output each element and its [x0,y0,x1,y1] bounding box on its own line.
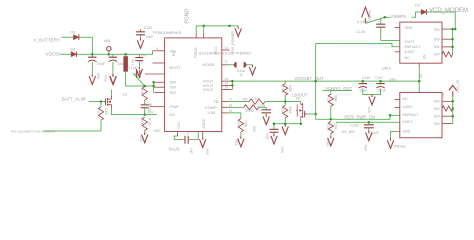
label D4 [71,47,76,51]
junction V_BATTERY joins rail [91,53,94,56]
wire C146 top lead [362,81,364,84]
pin ILIMIT stub U$9 [395,107,400,109]
svg-text:100k: 100k [140,118,144,126]
junction top gnd rail b [228,25,231,28]
resistor R105 [283,84,288,96]
svg-text:SW: SW [434,122,440,126]
svg-text:D4: D4 [71,47,76,51]
wire R127 top lead [330,91,332,95]
net label SOLDERED PERNO [199,51,251,56]
diode D6 [72,34,81,40]
label EN [148,111,153,115]
pin name BOOT inside [170,65,182,70]
svg-text:T8: T8 [295,96,299,100]
junction T8 source [300,122,303,125]
transistor T9 [104,96,112,109]
wire C147 bottom lead [372,88,381,94]
pin name SW3 U$10 [434,45,440,49]
wire R113 top lead [100,102,102,107]
svg-text:BATT_ALIM: BATT_ALIM [62,96,86,101]
resistor R102 [142,117,147,131]
pin name DVDT U$9 [403,120,414,124]
pin name MODE inside [203,62,215,67]
net label V_BATTERY [34,38,60,43]
svg-text:EN: EN [172,51,176,56]
diode D3 [420,9,429,15]
label VSS rotated R100 [234,139,238,145]
wire snubber mid [144,100,146,105]
solder jumper SJ1A [234,62,247,68]
svg-text:12: 12 [239,73,243,77]
svg-text:VOUT: VOUT [203,87,214,92]
wire NC1 vertical [203,26,205,33]
wire BATT_ALIM to T9 gate [89,101,104,103]
svg-text:VSS: VSS [205,149,209,155]
pin name SW4 U$10 [434,53,440,57]
net label VCHRG_OUT [325,86,352,91]
wire D6 to VIN rail corner [81,37,93,54]
wire FB to T8 drain [285,102,301,103]
svg-text:68R: 68R [334,95,338,102]
wire divider mid [284,95,286,105]
net label VSMPS [390,14,406,19]
wire C127 top lead [91,54,93,57]
wire SW bus vertical [153,82,155,92]
pin SW1 stub [154,81,165,83]
pin SW4 stub U$9 [442,123,453,125]
svg-text:EN: EN [170,112,176,117]
junction SW bus U$9 a [452,100,455,103]
pin name ENFAULT U$10 [405,45,422,49]
svg-text:NC: NC [405,56,411,60]
pin VIN stub U$7 pin 9 [153,50,165,52]
label C133 rotated [147,104,151,112]
pin name VOUT3 inside [203,87,214,92]
wire VOUT bus [231,81,233,89]
svg-text:SW: SW [170,90,177,95]
wire C136 bottom lead [273,132,275,134]
wire C128 bottom lead [112,62,114,74]
junction R127 PERI row [330,118,333,121]
label C134 [257,104,265,108]
junction PERI at U$9 branch [389,114,392,117]
svg-text:DVDT: DVDT [405,40,416,44]
wire C145 top stub [380,18,382,24]
svg-text:C132: C132 [144,26,152,30]
pin ILIMIT stub U$10 [395,51,400,53]
pin NC stub left [153,62,165,64]
svg-text:9: 9 [157,47,159,51]
svg-text:VSS: VSS [139,136,143,142]
label R132 [246,109,254,113]
svg-text:16: 16 [225,86,229,90]
inductor L2 [123,56,128,71]
pin name NC U$10 [405,56,411,60]
svg-text:RST_MCU/BATTCOM_PWRDWN: RST_MCU/BATTCOM_PWRDWN [11,130,55,134]
supply symbol VIN circle [107,47,111,51]
junction bottom rail cap [273,122,276,125]
pin FSW stub [150,106,165,108]
svg-text:PGND: PGND [184,9,190,24]
ground below C134 [263,114,269,124]
capacitor C147 [376,84,384,88]
svg-text:C145: C145 [356,30,365,34]
resistor R100 [238,119,243,133]
svg-text:VCC_3G: VCC_3G [456,79,460,93]
label R113 rotated [97,108,101,116]
label C148 [350,124,358,128]
label C132 [144,26,152,30]
svg-text:R113: R113 [97,108,101,116]
pin NC1 top stub [203,33,205,38]
svg-text:VCD_MODEM: VCD_MODEM [429,8,468,14]
svg-text:MODE: MODE [203,62,215,67]
wire C135 right to VAUX pin [189,132,198,140]
pin SW3 stub U$10 [442,46,453,48]
svg-text:C146: C146 [362,76,370,80]
junction FB divider [284,100,287,103]
pin GND stub U$10 [395,27,400,29]
svg-text:10uF: 10uF [97,61,106,66]
svg-text:GND: GND [405,26,413,30]
junction rail at U$10 bottom [418,80,421,83]
wire RST_MCU net [44,130,102,132]
wire C128 top lead [112,54,114,57]
svg-text:4u7: 4u7 [131,60,135,66]
value 10uF C146 [359,88,368,92]
pin SW1 stub U$10 [442,28,453,30]
ground below C148 [366,131,372,141]
label U$9 [389,78,396,82]
wire U$10 bottom to U$9 IN [418,68,420,93]
svg-text:14: 14 [225,77,229,81]
label VSS rotated C148 [364,145,368,151]
wire GND pin U$9 [391,132,400,139]
svg-text:100k: 100k [104,108,108,116]
label VSS rotated R131 [325,140,329,146]
label VSS rotated divider [280,147,284,153]
svg-text:10uF: 10uF [359,88,368,92]
junction SW bus pin b [152,85,155,88]
net label VCNVBT_OUT [294,76,324,81]
value 0.1uF [128,66,138,70]
pin number 2 [187,131,189,135]
net label V3G rotated left [441,92,445,99]
pin name SW4 U$9 [434,122,440,126]
pin name SW1 inside [170,80,177,85]
label VSS rotated C128 [104,75,108,81]
value 1uF rotated C135 [189,148,193,154]
wire DVDT net to U$10 [381,40,400,42]
wire FB to R9 [229,101,250,103]
pin name SW1 U$10 [434,28,440,32]
pin name VIN inside [170,48,177,53]
svg-text:13: 13 [225,46,229,50]
value 4u7 rotated [131,60,135,66]
capacitor C136 [270,129,279,132]
svg-text:TPS61088RHLR: TPS61088RHLR [153,30,182,35]
pin 16 VOUT stub [222,88,233,90]
svg-text:V_BATTERY: V_BATTERY [34,38,60,43]
svg-text:DVDT: DVDT [403,120,414,124]
pin name SW2 U$9 [434,107,440,111]
net label VCD_MODEM [429,8,468,14]
junction SW node at snubber [143,85,146,88]
svg-text:U$7: U$7 [154,129,161,133]
svg-text:SW: SW [434,38,440,42]
pin name COMP inside [205,105,217,110]
value 100k rotated R100 [244,120,248,128]
pin number 9 [157,47,159,51]
ground VSS below C128 [110,74,116,84]
label D3 [415,4,420,8]
pin name EN rotated U$10 [423,54,427,59]
label T8 [295,96,299,100]
net label VIN small [141,54,147,58]
wire VCC to C135 [174,136,185,139]
pin 15 VOUT stub [222,84,233,86]
wire COMP to R132 [229,106,244,108]
svg-text:VSS: VSS [104,75,108,81]
net label VCC_3G rotated [456,79,460,93]
svg-text:VSS: VSS [367,107,371,113]
wire VCNVBT_OUT rail [232,80,419,82]
pin name ENFAULT U$9 [403,113,420,117]
resistor R127 [328,94,333,106]
svg-text:VCC: VCC [177,121,181,129]
wire DVDT net U$9 [336,121,400,123]
wire divider bottom [284,118,286,124]
net label VDC5V [46,51,62,56]
label VIN supply [104,38,111,43]
svg-text:ILIMIT: ILIMIT [405,50,416,54]
junction SW bus U$10 c [451,46,454,49]
wire bottom gnd rail [274,123,301,125]
net label P5Dxxx [394,145,407,149]
pin name EN top rotated [172,51,176,56]
wire R127 bottom [330,106,332,119]
wire C131 bottom lead [138,61,140,67]
capacitor C145 [376,24,385,27]
supply symbol VCC_3G arrow [449,85,457,96]
pin name FB inside [214,99,219,104]
capacitor C127 [88,57,96,61]
wire V_BATTERY to D6 [62,36,73,38]
resistor R9 [249,99,265,104]
svg-text:D3: D3 [415,4,420,8]
wire R113 bottom to RST wire [100,120,102,131]
svg-text:FSW: FSW [145,103,152,107]
svg-text:11: 11 [225,60,229,64]
svg-text:R102: R102 [147,118,151,126]
label R9 [243,97,248,101]
wire PERI row [316,115,400,119]
pin name DVDT U$10 [405,40,416,44]
pin VCC bottom stub [177,132,179,137]
pin number 19 [229,109,233,113]
resistor R131 [328,122,333,134]
label VSS rotated C134 [252,126,256,132]
wire C127 bottom lead [91,62,93,74]
diode D4 [70,51,79,57]
junction enable at gate [314,113,317,116]
ground below AGND [200,137,206,147]
svg-text:R131: R131 [326,123,330,131]
svg-text:22uF: 22uF [378,88,387,92]
label C146 [362,76,370,80]
pin name SW1 U$9 [434,99,440,103]
net label RST_MCU/BATTCOM_PWRDWN [11,130,55,134]
pin C132 top stub [140,29,142,31]
ground top rail [235,26,241,36]
junction VOUT bus a [231,80,234,83]
ground at SJ1A [249,65,255,75]
svg-text:1uF: 1uF [189,148,193,154]
svg-text:VSS: VSS [252,126,256,132]
resistor R104 snubber [142,87,147,101]
svg-text:3G_BG: 3G_BG [342,129,355,134]
svg-text:SW: SW [434,107,440,111]
pin name NC U$9 [403,97,409,101]
pin 11 MODE stub [222,64,228,66]
wire D3 to VCD_MODEM [428,12,455,29]
pin SW2 stub [154,86,165,88]
ground below R100 [238,137,244,147]
svg-text:SW: SW [434,28,440,32]
net label VAUX [168,147,179,152]
pin name VCC bottom rotated [177,121,181,129]
pin name SW3 U$9 [434,114,440,118]
svg-text:PGND: PGND [194,47,198,58]
pin PGND top stub [195,33,197,38]
svg-text:0.33uF: 0.33uF [357,20,370,24]
wire R131 bottom [330,134,332,136]
pin name PGND top rotated [194,47,198,58]
value 100k rotated R131 [334,123,338,131]
capacitor C135 vaux [185,136,188,144]
svg-text:T9: T9 [122,93,126,97]
pin name SW2 inside [170,85,177,90]
svg-text:VSS: VSS [280,147,284,153]
value 10nF [146,35,154,39]
pin name ILIMIT U$10 [405,50,416,54]
junction VIN rail at VIN symbol [108,53,111,56]
junction SW bus U$9 b [452,107,455,110]
ic U$10 body [400,22,442,63]
ground below R131 [328,136,334,146]
pin name NC1 top rotated [214,47,218,54]
pin name ILIM inside [208,110,216,115]
stray number 12 near rail [239,73,243,77]
resistor R113 [98,107,103,121]
svg-text:SW: SW [434,53,440,57]
value 205k rotated [288,85,292,93]
svg-text:FB: FB [214,99,219,104]
pin number 14 [225,77,229,81]
svg-text:R104: R104 [140,88,144,96]
svg-text:VSS: VSS [364,145,368,151]
ground above T9 drain [110,74,116,84]
svg-text:C148: C148 [350,124,358,128]
junction VSMPS node [384,16,387,19]
svg-text:C147: C147 [375,76,383,80]
svg-text:R127: R127 [326,95,330,103]
svg-text:R105: R105 [281,85,285,93]
svg-text:18: 18 [229,103,233,107]
wire VDC5V to D4 [61,53,70,55]
net label PGND rotated [184,9,190,24]
value 22uF [117,61,126,66]
wire boot cap to SW diagonal [134,74,145,86]
pin number 18 [229,103,233,107]
label U$10 [382,67,391,71]
pin BOOT lead U$7 [145,73,165,75]
pin number 16 [225,86,229,90]
svg-text:100k: 100k [334,123,338,131]
wire SW out bus U$9 [452,96,454,124]
wire VSMPS to D3 [412,12,420,17]
svg-text:ENFAULT: ENFAULT [405,45,422,49]
svg-text:P5Dxxx: P5Dxxx [394,145,407,149]
label R100 rotated [236,120,240,128]
svg-text:VDC5V: VDC5V [46,51,62,56]
pin number 11 [225,60,229,64]
capacitor C132 [136,32,145,35]
svg-text:100k: 100k [244,120,248,128]
wire enable vertical [315,43,317,119]
wire VIN rail [78,51,152,54]
junction EN net at R102 [143,113,146,116]
junction top gnd rail [202,25,205,28]
wire R9 to divider [265,101,285,103]
pin name FSW inside [170,104,179,109]
pin name IN rotated column [419,74,423,78]
net label 3G_BG [342,129,355,134]
capacitor C130 boot [137,70,140,78]
label C147 [375,76,383,80]
wire VCHRG_OUT stub [323,90,353,92]
transistor T8 [296,103,306,118]
svg-text:R100: R100 [236,120,240,128]
wire SJ1A to gnd [247,64,253,66]
junction VIN rail at L2 [124,53,127,56]
value 10uF [97,61,106,66]
svg-text:U$9: U$9 [389,78,396,82]
label R127 rotated [326,95,330,103]
svg-text:10k: 10k [255,97,261,101]
label C145 [356,30,365,34]
label R102 rotated [147,118,151,126]
wire T8 gate to enable column [306,113,316,115]
capacitor C134 [261,110,271,113]
pin name VOUT2 inside [203,83,214,88]
junction VCD bus corner [454,28,457,31]
wire snubber bottom [144,108,146,115]
pin name VOUT1 inside [203,79,214,84]
svg-text:EN: EN [423,54,427,59]
value 100k rotated R113 [104,108,108,116]
value 0.33uF C145 [357,20,370,24]
pin name SW3 inside [170,90,177,95]
ground shared below C146 C147 [369,95,375,105]
svg-text:SW: SW [434,99,440,103]
pin 13 stub [222,49,230,51]
value 10k R9 [255,97,261,101]
wire C148 bottom [368,128,370,131]
net label 12VOUT [291,92,308,97]
wire top pins to gnd rail [196,26,238,33]
junction SW bus pin a [152,81,155,84]
